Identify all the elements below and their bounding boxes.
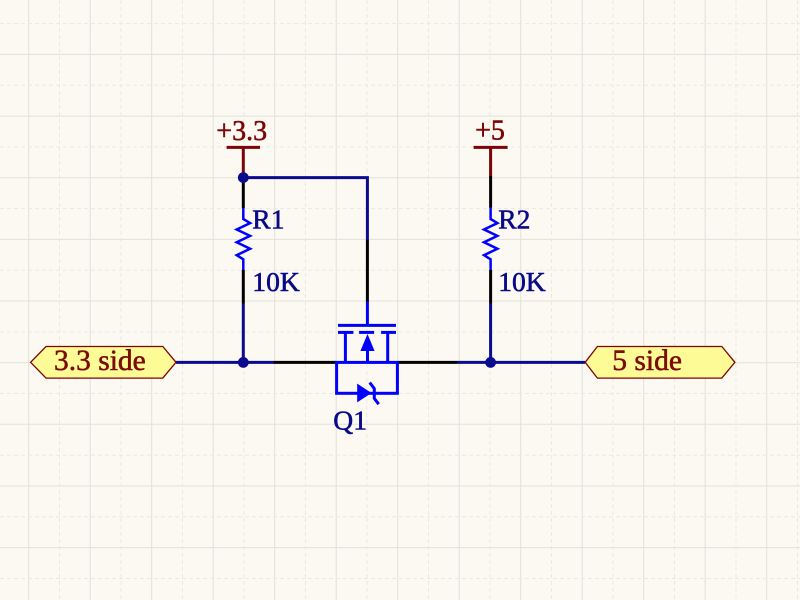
svg-text:R1: R1 (252, 204, 284, 235)
svg-text:+3.3: +3.3 (216, 116, 267, 147)
port 5 side (585, 347, 735, 379)
port 3.3 side (31, 347, 176, 379)
junction node top (238, 172, 249, 183)
wire main rail right (458, 361, 586, 364)
power +5 (474, 147, 508, 177)
svg-text:Q1: Q1 (333, 404, 367, 435)
resistor R2 pin 1 (489, 176, 492, 208)
transistor Q1 source pin (274, 361, 337, 364)
transistor Q1 (337, 302, 398, 405)
resistor R1 pin 1 (242, 178, 245, 208)
junction node right (485, 357, 496, 368)
transistor Q1 drain pin (398, 361, 457, 364)
resistor R1 pin 2 (242, 270, 245, 304)
junction node left (238, 357, 249, 368)
transistor Q1 bulk arrow (360, 334, 374, 351)
resistor R1 (237, 208, 250, 270)
transistor Q1 gate pin (366, 240, 369, 302)
power +3.3 (227, 147, 260, 177)
svg-text:+5: +5 (475, 116, 505, 147)
resistor R2 (484, 208, 497, 271)
svg-text:10K: 10K (498, 266, 546, 297)
wire top rail (243, 178, 367, 240)
resistor R2 pin 2 (489, 270, 492, 304)
svg-text:10K: 10K (252, 266, 300, 297)
svg-text:3.3 side: 3.3 side (54, 345, 146, 377)
transistor Q1 body diode (357, 384, 371, 403)
wire main rail left (176, 361, 274, 364)
wire R2 bottom (489, 304, 492, 363)
svg-text:R2: R2 (498, 204, 530, 235)
wire R1 bottom (242, 304, 245, 363)
svg-text:5 side: 5 side (612, 345, 682, 377)
